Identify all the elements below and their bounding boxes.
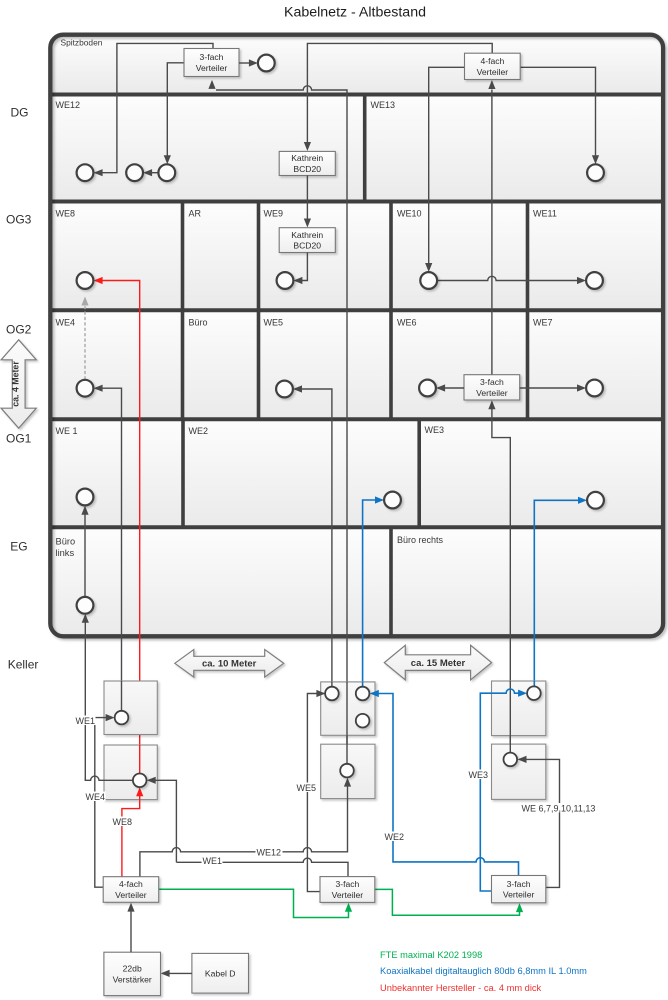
outlet WE2 xyxy=(384,492,401,509)
wire green 3-fach middle to 3-fach right xyxy=(375,889,520,915)
wire green 4-fach keller to 3-fach middle xyxy=(159,889,349,917)
wire Kabel D to 22db Verstaerker xyxy=(164,972,192,974)
svg-text:WE5: WE5 xyxy=(297,783,317,793)
svg-text:Büro: Büro xyxy=(189,318,208,328)
svg-text:WE 1: WE 1 xyxy=(56,426,78,436)
wire 4-fach left to WE10 outlet xyxy=(429,67,465,268)
keller junction box WE4 xyxy=(104,745,157,800)
outlet WE11 xyxy=(586,272,603,289)
wire WE12 line from 4-fach keller to middle box xyxy=(140,781,348,877)
svg-text:Keller: Keller xyxy=(8,658,39,672)
svg-text:OG2: OG2 xyxy=(6,323,32,337)
wire red riser through box WE4 xyxy=(139,745,141,774)
svg-text:WE8: WE8 xyxy=(113,817,133,827)
outlet WE 1 xyxy=(77,489,94,506)
wire riser WE4 through box WE1 xyxy=(121,681,123,711)
wire WE5 line 3-fach middle to circle A xyxy=(307,694,324,892)
wire Kathrein OG3 to WE9 outlet xyxy=(297,253,307,281)
svg-text:3-fach: 3-fach xyxy=(335,879,359,889)
svg-text:WE12: WE12 xyxy=(257,847,282,857)
svg-text:Verteiler: Verteiler xyxy=(332,890,364,900)
wire WE1 line from 3-fach middle to WE4 box xyxy=(176,858,348,876)
Kathrein BCD20 DG xyxy=(279,151,335,175)
building room fills xyxy=(50,35,663,637)
net label WE5 xyxy=(296,783,317,793)
wire riser WE5 stub xyxy=(331,682,333,687)
distance arrow ca. 4 Meter vertical xyxy=(1,340,36,428)
wire riser OG2-feed through right boxes xyxy=(509,681,511,753)
wire blue riser WE3 feed xyxy=(534,500,583,686)
outlet EG Buero links xyxy=(77,597,94,614)
wire red riser to WE8 outlet xyxy=(97,281,139,774)
keller circle F xyxy=(504,753,518,767)
svg-text:Verteiler: Verteiler xyxy=(503,890,535,900)
wire EG outlet to WE1 outlet xyxy=(84,509,86,597)
outlet Spitzboden xyxy=(258,55,275,72)
svg-text:WE10: WE10 xyxy=(397,209,422,219)
outlet WE3 xyxy=(587,492,604,509)
net label WE4 left xyxy=(85,792,106,802)
22db Verstaerker xyxy=(104,952,161,995)
svg-text:Büro: Büro xyxy=(56,537,76,547)
floor divider lines xyxy=(50,95,663,528)
3-fach Verteiler Keller middle xyxy=(320,877,375,903)
svg-text:ca. 15 Meter: ca. 15 Meter xyxy=(411,658,466,669)
wire 3-fach left to WE12 outlet 3 xyxy=(167,63,184,161)
Kathrein BCD20 OG3 xyxy=(279,228,335,253)
wire blue riser WE3 stub xyxy=(533,681,535,687)
svg-text:WE2: WE2 xyxy=(189,426,209,436)
wire OG2 3-fach input from keller xyxy=(492,404,510,753)
wire keller to EG outlet xyxy=(84,617,86,780)
svg-text:Kathrein: Kathrein xyxy=(291,230,323,240)
keller circle E xyxy=(527,686,541,700)
wire WE4 box circle feed from 3-fach middle xyxy=(151,780,177,862)
wire WE10 to WE11 outlet xyxy=(437,276,582,280)
svg-text:WE4: WE4 xyxy=(86,792,106,802)
svg-text:3-fach: 3-fach xyxy=(200,52,224,62)
outlet WE9 xyxy=(277,272,294,289)
3-fach Verteiler OG2 xyxy=(464,375,520,400)
svg-text:WE9: WE9 xyxy=(264,209,284,219)
keller circle B xyxy=(356,687,370,701)
svg-text:WE12: WE12 xyxy=(56,100,81,110)
wire blue riser WE2 stub xyxy=(362,682,364,687)
net label WE1 left xyxy=(75,716,96,726)
wire 4-fach right to WE13 outlet xyxy=(520,67,595,161)
svg-text:Kathrein: Kathrein xyxy=(291,153,323,163)
wire 22db Verstaerker to 4-fach keller xyxy=(130,906,132,952)
svg-text:Verteiler: Verteiler xyxy=(476,388,508,398)
svg-text:4-fach: 4-fach xyxy=(119,879,143,889)
arrow OG2 3-fach to WE6 outlet xyxy=(440,387,464,389)
outlet WE12-2 xyxy=(126,164,143,181)
svg-text:Verteiler: Verteiler xyxy=(196,63,228,73)
building outer frame xyxy=(50,35,663,637)
svg-text:WE2: WE2 xyxy=(385,832,405,842)
svg-text:BCD20: BCD20 xyxy=(293,164,321,174)
net label WE 6,7,9,10,11,13 xyxy=(521,803,597,813)
wire riser WE4 feed xyxy=(97,388,121,711)
keller circle WE1 box xyxy=(115,711,129,725)
svg-text:Kabel D: Kabel D xyxy=(205,968,236,978)
wire Kathrein DG to Kathrein OG3 xyxy=(306,176,308,225)
wire blue WE2 line from 3-fach right to circle B xyxy=(378,694,519,876)
svg-text:OG3: OG3 xyxy=(6,213,32,227)
wire blue riser WE2 feed xyxy=(363,500,381,687)
keller junction box right top xyxy=(492,681,546,736)
wire 4-fach top to Kathrein chain xyxy=(307,43,492,147)
svg-text:Verteiler: Verteiler xyxy=(115,890,147,900)
outlet WE6 xyxy=(419,380,436,397)
svg-text:WE4: WE4 xyxy=(56,318,76,328)
arrow OG2 3-fach to WE7 outlet xyxy=(520,387,583,389)
wire WE4 box circle to WE1 riser xyxy=(85,776,133,780)
keller junction box WE1 xyxy=(104,681,157,735)
svg-text:ca. 4 Meter: ca. 4 Meter xyxy=(11,361,21,407)
keller junction box middle top xyxy=(321,682,375,735)
wire riser WE12 from keller to 3-fach Verteiler input xyxy=(216,86,347,764)
wire riser from OG2 3-fach up to 4-fach input xyxy=(491,90,493,375)
net label WE1 line xyxy=(202,856,223,865)
svg-text:Büro rechts: Büro rechts xyxy=(397,535,444,545)
wire 3-fach right to circle F xyxy=(522,759,560,887)
svg-text:BCD20: BCD20 xyxy=(293,241,321,251)
keller junction box middle bottom xyxy=(321,744,375,798)
net label WE12 line xyxy=(256,847,283,857)
outlet WE8 xyxy=(77,272,94,289)
svg-text:WE5: WE5 xyxy=(264,318,284,328)
svg-text:Unbekannter Hersteller - ca. 4: Unbekannter Hersteller - ca. 4 mm dick xyxy=(380,983,542,993)
svg-text:Kabelnetz - Altbestand: Kabelnetz - Altbestand xyxy=(284,5,426,21)
svg-text:WE11: WE11 xyxy=(533,209,557,219)
3-fach Verteiler Spitzboden xyxy=(184,49,239,77)
Kabel D xyxy=(192,953,249,993)
wire riser WE5 feed xyxy=(297,389,332,687)
svg-text:Koaxialkabel digitaltauglich 8: Koaxialkabel digitaltauglich 80db 6,8mm … xyxy=(380,966,587,976)
svg-text:WE3: WE3 xyxy=(469,770,489,780)
outlet WE12-3 xyxy=(158,164,175,181)
svg-text:OG1: OG1 xyxy=(6,432,32,446)
wire 3-fach top to WE12 outlet 1 xyxy=(98,43,214,172)
wire riser WE12 through middle boxes xyxy=(346,682,348,764)
svg-text:WE1: WE1 xyxy=(76,716,96,726)
net label WE8 xyxy=(112,817,133,827)
svg-text:WE7: WE7 xyxy=(533,318,553,328)
keller circle WE4 box xyxy=(133,774,147,788)
wire dashed WE4 to WE8 xyxy=(84,306,86,380)
svg-text:links: links xyxy=(56,548,75,558)
svg-text:WE8: WE8 xyxy=(56,209,76,219)
distance arrow ca. 10 Meter xyxy=(175,650,284,678)
outlet WE5 xyxy=(276,381,293,398)
outlet WE13 xyxy=(587,164,604,181)
svg-text:4-fach: 4-fach xyxy=(480,56,504,66)
room divider lines xyxy=(363,95,367,202)
3-fach Verteiler Keller right xyxy=(492,876,546,903)
svg-text:FTE maximal K202 1998: FTE maximal K202 1998 xyxy=(380,950,482,960)
svg-text:Verstärker: Verstärker xyxy=(113,974,152,984)
svg-text:AR: AR xyxy=(189,209,202,219)
net label WE2 xyxy=(384,832,405,842)
4-fach Verteiler Spitzboden xyxy=(465,53,521,79)
net label WE3 xyxy=(468,770,489,780)
keller circle C xyxy=(356,714,370,728)
arrow 3-fach to Spitzboden outlet xyxy=(239,62,250,64)
svg-text:3-fach: 3-fach xyxy=(480,377,504,387)
keller junction box right bottom xyxy=(492,744,546,799)
svg-text:WE1: WE1 xyxy=(203,856,223,866)
svg-text:EG: EG xyxy=(10,539,27,553)
outlet WE10 xyxy=(420,272,437,289)
svg-text:DG: DG xyxy=(11,106,29,120)
svg-text:22db: 22db xyxy=(123,964,142,974)
wire 4-fach keller left output to WE1 box xyxy=(95,718,111,888)
4-fach Verteiler Keller xyxy=(103,877,159,903)
svg-text:Spitzboden: Spitzboden xyxy=(61,37,103,47)
wire red 4-fach keller to WE4 box circle xyxy=(122,791,140,877)
svg-text:ca. 10 Meter: ca. 10 Meter xyxy=(202,659,257,670)
svg-text:3-fach: 3-fach xyxy=(507,879,531,889)
svg-text:WE3: WE3 xyxy=(425,425,445,435)
svg-text:Verteiler: Verteiler xyxy=(477,67,509,77)
svg-text:WE 6,7,9,10,11,13: WE 6,7,9,10,11,13 xyxy=(522,804,596,814)
keller circle D xyxy=(340,764,354,778)
outlet WE4 xyxy=(77,380,94,397)
arrow WE12 outlet3 to outlet2 xyxy=(147,172,159,174)
outlet WE7 xyxy=(586,380,603,397)
svg-text:WE6: WE6 xyxy=(397,318,417,328)
outlet WE12-1 xyxy=(77,164,94,181)
wire blue WE3 line from 3-fach right to circle E xyxy=(480,689,523,891)
distance arrow ca. 15 Meter xyxy=(384,645,491,680)
keller circle A xyxy=(325,687,339,701)
svg-text:WE13: WE13 xyxy=(371,100,396,110)
